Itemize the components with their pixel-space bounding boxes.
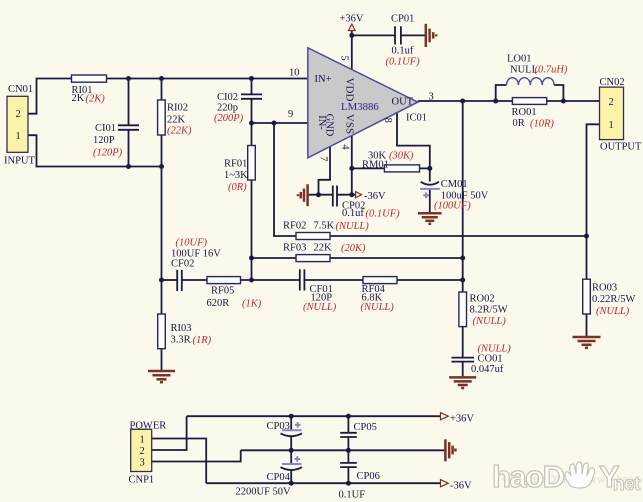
- wire CI01 top branch: [128, 79, 130, 125]
- wire CN01 pin1 to bottom rail: [28, 135, 162, 166]
- wire CN01 pin2 to RI01 to IN+: [28, 79, 72, 114]
- wire CP06 top: [347, 450, 349, 463]
- resistor RI03: [158, 314, 166, 349]
- resistor RI02: [158, 100, 166, 135]
- wire CP03 bottom: [290, 437, 292, 451]
- svg-text:0.1UF: 0.1UF: [339, 490, 366, 501]
- svg-text:VSS: VSS: [344, 114, 356, 134]
- capacitor CF02: [177, 270, 182, 291]
- wire RI02 junction down to CF02 row: [161, 167, 163, 281]
- svg-text:0.047uf: 0.047uf: [471, 364, 504, 375]
- resistor RM01: [384, 165, 419, 172]
- wire CP03 top: [290, 416, 292, 430]
- svg-text:0.1uf: 0.1uf: [392, 46, 414, 57]
- capacitor CI02: [241, 94, 262, 98]
- resistor RF03: [296, 255, 330, 262]
- wire CM01 to ground: [429, 189, 431, 213]
- svg-text:(20K): (20K): [341, 243, 366, 254]
- svg-text:IC01: IC01: [406, 113, 427, 124]
- wire CF02 junction down to RI03: [161, 280, 163, 314]
- wire CF01 to RF04: [304, 279, 363, 281]
- ground below CO01: [449, 377, 476, 388]
- wire IN- riser to RF02: [274, 123, 296, 236]
- svg-text:1: 1: [16, 131, 21, 142]
- svg-text:(NULL): (NULL): [336, 221, 370, 232]
- wire LO01 loop: [496, 85, 507, 101]
- capacitor CF01: [300, 269, 305, 290]
- capacitor CP02: [333, 186, 337, 207]
- svg-text:7: 7: [317, 156, 328, 161]
- resistor RF04: [363, 277, 397, 284]
- svg-text:120P: 120P: [93, 135, 115, 146]
- svg-text:(30K): (30K): [389, 151, 414, 162]
- svg-text:CI01: CI01: [95, 123, 116, 134]
- svg-text:3: 3: [429, 92, 434, 103]
- wire op-amp OUT to CN02 pin2: [418, 100, 600, 102]
- svg-text:2K: 2K: [72, 93, 85, 104]
- svg-text:(0.1UF): (0.1UF): [366, 208, 401, 219]
- svg-text:1~3K: 1~3K: [224, 170, 248, 181]
- ground at CP02 (left-facing): [298, 184, 308, 206]
- resistor RO02: [459, 292, 467, 327]
- wire output node vertical to RO02: [462, 101, 464, 292]
- svg-text:CP01: CP01: [391, 14, 414, 25]
- svg-text:haoD: haoD: [492, 459, 565, 494]
- svg-text:(0R): (0R): [228, 182, 247, 193]
- svg-text:(1R): (1R): [193, 335, 212, 346]
- svg-text:620R: 620R: [207, 298, 230, 309]
- wire CP05 top: [347, 416, 349, 432]
- svg-text:(200P): (200P): [214, 113, 244, 124]
- svg-text:OUT: OUT: [392, 96, 414, 107]
- wire RM01 left: [352, 167, 385, 169]
- svg-text:CO01: CO01: [478, 354, 503, 365]
- svg-text:0R: 0R: [513, 118, 525, 129]
- capacitor CO01: [452, 358, 475, 362]
- wire bottom rail -36V: [206, 482, 440, 484]
- power arrow -36V bottom rail: [441, 480, 449, 487]
- svg-text:(NULL): (NULL): [473, 316, 507, 327]
- svg-text:(22K): (22K): [167, 126, 192, 137]
- svg-text:3.3R: 3.3R: [171, 335, 191, 346]
- connector CN01: [7, 96, 28, 152]
- svg-text:(1K): (1K): [242, 299, 262, 310]
- wire RI02 top: [161, 79, 163, 101]
- power arrow +36V top: [349, 24, 356, 31]
- wire RF05 to CF01: [241, 279, 300, 281]
- ground at CP01 (right-facing): [426, 24, 436, 47]
- wire RI01 right to op-amp pin 10: [107, 78, 308, 80]
- svg-text:RF05: RF05: [211, 286, 234, 297]
- ground below CM01: [418, 213, 442, 224]
- inductor LO01: [507, 78, 555, 85]
- capacitor CI01: [118, 125, 139, 130]
- svg-text:2200UF 50V: 2200UF 50V: [236, 487, 292, 498]
- wire CP04 top: [290, 450, 292, 463]
- svg-text:3: 3: [140, 458, 145, 469]
- svg-text:22K: 22K: [167, 114, 186, 125]
- svg-text:RM01: RM01: [362, 160, 389, 171]
- svg-text:GND: GND: [324, 114, 335, 137]
- wire IN- to op-amp pin 9: [252, 122, 308, 124]
- svg-text:(10R): (10R): [530, 119, 554, 130]
- svg-text:CP04: CP04: [267, 472, 291, 483]
- svg-text:CP06: CP06: [357, 471, 380, 482]
- wire CI02 bottom to IN- wire: [251, 99, 253, 123]
- svg-text:RF01: RF01: [224, 159, 247, 170]
- wire CP01 to ground: [401, 34, 426, 36]
- wire RO02 to CO01: [462, 327, 464, 357]
- wire pin 8 to RM01 right node: [397, 113, 430, 169]
- capacitor CP03 electrolytic: [281, 422, 303, 436]
- ground below RI03: [148, 371, 175, 382]
- svg-text:220p: 220p: [217, 102, 238, 113]
- svg-text:(10UF): (10UF): [176, 238, 208, 249]
- svg-text:IN+: IN+: [315, 74, 332, 85]
- wire CF02 left: [162, 279, 177, 281]
- svg-text:+36V: +36V: [450, 414, 474, 425]
- svg-text:CN02: CN02: [600, 77, 625, 88]
- svg-text:(120P): (120P): [93, 147, 123, 158]
- svg-text:RO01: RO01: [512, 107, 537, 118]
- wire CI01 bottom branch: [128, 131, 130, 167]
- wire RI03 to ground: [161, 349, 163, 372]
- svg-text:(NULL): (NULL): [303, 302, 337, 313]
- svg-text:8.2R/5W: 8.2R/5W: [470, 305, 508, 316]
- ground below RO03: [573, 337, 601, 348]
- svg-text:RI02: RI02: [167, 103, 188, 114]
- svg-text:net: net: [613, 474, 641, 495]
- svg-text:RI03: RI03: [171, 323, 192, 334]
- resistor RI01: [72, 75, 107, 82]
- wire VDD node to CP01: [352, 34, 395, 36]
- svg-text:4: 4: [340, 144, 351, 150]
- wire RM01 right: [420, 167, 430, 169]
- wire RF02 right to CN02 pin1 node: [330, 235, 587, 237]
- wire RO03 to ground: [586, 314, 588, 337]
- wire CN02 pin1 riser: [587, 124, 600, 236]
- wire CNP1 pin3 to mid rail: [152, 450, 241, 461]
- wire CI02 top branch: [251, 79, 253, 95]
- wire CNP1 pin1 to bottom rail: [152, 439, 207, 484]
- svg-text:OUTPUT: OUTPUT: [600, 141, 642, 152]
- svg-text:CF02: CF02: [171, 259, 194, 270]
- connector CN02: [600, 87, 624, 140]
- svg-text:2: 2: [609, 97, 614, 108]
- wire CP02 to -36V: [336, 194, 355, 196]
- wire RO03 top: [586, 236, 588, 279]
- svg-text:1: 1: [140, 435, 145, 446]
- svg-text:8: 8: [382, 118, 393, 123]
- svg-text:VDD: VDD: [344, 78, 356, 102]
- resistor RF02: [296, 233, 330, 240]
- wire RF03 left: [252, 257, 297, 259]
- svg-text:CNP1: CNP1: [129, 475, 155, 486]
- resistor RO01: [512, 98, 546, 105]
- svg-text:CN01: CN01: [8, 84, 33, 95]
- wire CP05 bottom: [347, 437, 349, 451]
- wire CP06 bottom: [347, 467, 349, 483]
- capacitor CP05: [340, 433, 357, 437]
- wire RF03 right to output node: [330, 257, 463, 259]
- wire RI02 bottom: [161, 135, 163, 167]
- capacitor CP06: [340, 463, 357, 467]
- svg-text:(100UF): (100UF): [434, 201, 471, 212]
- connector CNP1: [131, 429, 152, 471]
- svg-text:2: 2: [140, 446, 145, 457]
- resistor RF05: [207, 277, 241, 284]
- svg-text:LM3886: LM3886: [341, 101, 379, 113]
- op-amp U1 LM3886 triangle: [308, 48, 418, 158]
- svg-text:RO03: RO03: [592, 283, 617, 294]
- power arrow +36V bottom rail: [441, 413, 449, 420]
- svg-text:RO02: RO02: [470, 294, 495, 305]
- wire mid rail to ground: [241, 449, 446, 451]
- svg-text:RF03: RF03: [283, 243, 306, 254]
- svg-text:5: 5: [338, 55, 349, 60]
- svg-text:2: 2: [16, 109, 21, 120]
- wire CO01 to ground: [462, 362, 464, 377]
- svg-text:(NULL): (NULL): [596, 306, 630, 317]
- svg-text:(2K): (2K): [86, 94, 106, 105]
- wire RF03 node down to CF01 row: [251, 258, 253, 280]
- power arrow -36V at CP02: [356, 192, 362, 198]
- svg-text:10: 10: [289, 67, 300, 78]
- svg-text:0.1uf: 0.1uf: [342, 208, 364, 219]
- wire CP04 bottom: [290, 470, 292, 483]
- svg-text:LO01: LO01: [507, 54, 532, 65]
- svg-text:-36V: -36V: [450, 481, 472, 492]
- wire LO01 loop right: [554, 85, 563, 101]
- svg-text:9: 9: [288, 109, 293, 120]
- ground at power mid rail (right-facing): [445, 439, 455, 461]
- svg-text:+36V: +36V: [340, 14, 364, 25]
- svg-text:(NULL): (NULL): [361, 302, 395, 313]
- svg-text:22K: 22K: [314, 243, 333, 254]
- capacitor CP04 electrolytic: [281, 456, 303, 470]
- wire CNP1 pin2 to top rail: [152, 416, 187, 450]
- resistor RO03: [583, 279, 591, 314]
- svg-text:INPUT: INPUT: [4, 156, 36, 167]
- svg-text:1: 1: [609, 120, 614, 131]
- wire RF01 top: [251, 123, 253, 146]
- wire pin 7 GND to ground row: [319, 146, 331, 195]
- svg-text:RF02: RF02: [283, 221, 306, 232]
- svg-text:POWER: POWER: [130, 421, 167, 432]
- resistor RF01: [248, 146, 256, 181]
- watermark hand icon: [565, 462, 595, 488]
- capacitor CP01: [395, 26, 401, 44]
- svg-text:CP03: CP03: [267, 421, 290, 432]
- wire top rail +36V: [187, 415, 440, 417]
- svg-text:7.5K: 7.5K: [314, 221, 335, 232]
- wire RF04 right to output node: [397, 279, 463, 281]
- wire CF02 to RF05: [181, 279, 207, 281]
- wire ground to CP02: [308, 194, 333, 196]
- svg-text:(0.7uH): (0.7uH): [535, 65, 568, 76]
- svg-text:CP05: CP05: [354, 422, 377, 433]
- wire CM01 top: [429, 168, 431, 181]
- wire RF01 bottom down to RF03 node: [251, 180, 253, 258]
- svg-text:-36V: -36V: [364, 191, 386, 202]
- svg-text:(0.1UF): (0.1UF): [386, 57, 421, 68]
- capacitor CM01 electrolytic: [420, 182, 440, 198]
- wire +36V to VDD pin 5: [351, 30, 353, 69]
- svg-text:0.22R/5W: 0.22R/5W: [592, 294, 636, 305]
- wire VSS pin 4 down to -36V node: [351, 136, 353, 195]
- svg-text:CM01: CM01: [441, 179, 468, 190]
